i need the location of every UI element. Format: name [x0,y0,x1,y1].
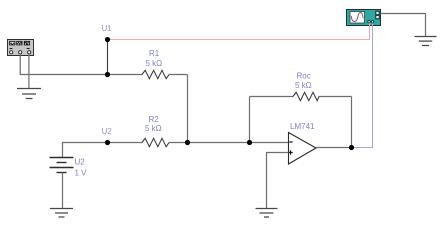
junction dot R1/R2 summing node [185,140,190,145]
wire R1 output down to summing row [187,75,189,143]
output node junction dot [349,145,354,150]
wire battery negative to ground [62,173,64,209]
wire oscilloscope ground terminal [381,14,426,37]
svg-text:R1: R1 [149,49,160,58]
wire node U1 down to R1 row [107,40,109,75]
resistor R1 [108,74,188,76]
wire (red) node U1 to oscilloscope channel A [108,25,370,40]
wire stub channel A into scope [369,23,371,26]
svg-text:1 V: 1 V [75,169,88,178]
function generator XFG1 [8,40,34,56]
svg-text:5 kΩ: 5 kΩ [295,81,312,90]
svg-text:U1: U1 [102,24,113,33]
ground (function generator) [17,89,41,99]
node U1 junction dot [105,37,110,42]
wire generator common terminal to R1 input row [20,54,107,75]
battery U2 [50,158,74,173]
wire stub channel B into scope [372,23,374,26]
svg-text:5 kΩ: 5 kΩ [146,59,163,68]
wire generator minus terminal down to ground [28,54,30,89]
junction dot feedback tap [247,140,252,145]
node U2 junction dot [105,140,110,145]
svg-text:U2: U2 [75,158,86,167]
svg-text:U2: U2 [102,127,113,136]
wire battery to node U2 [63,143,108,158]
ground (op-amp non-inverting input) [256,209,278,218]
resistor Roc (feedback) [250,96,352,98]
svg-text:LM741: LM741 [290,122,315,131]
wire feedback left rail up [249,97,251,143]
svg-text:R2: R2 [149,115,160,124]
resistor R2 [108,142,289,144]
svg-text:5 kΩ: 5 kΩ [145,124,162,133]
wire feedback right rail down to output [351,97,353,148]
ground (oscilloscope) [415,37,437,46]
wire non-inverting input to ground [267,153,289,209]
junction dot at R1 row [105,72,110,77]
wire op-amp output [316,147,352,149]
ground (battery) [50,209,73,218]
oscilloscope XSC1 [347,10,381,26]
op-amp U1 LM741 [288,133,316,165]
svg-text:Roc: Roc [297,72,311,81]
wire (blue) output node to oscilloscope channel B [352,24,373,148]
